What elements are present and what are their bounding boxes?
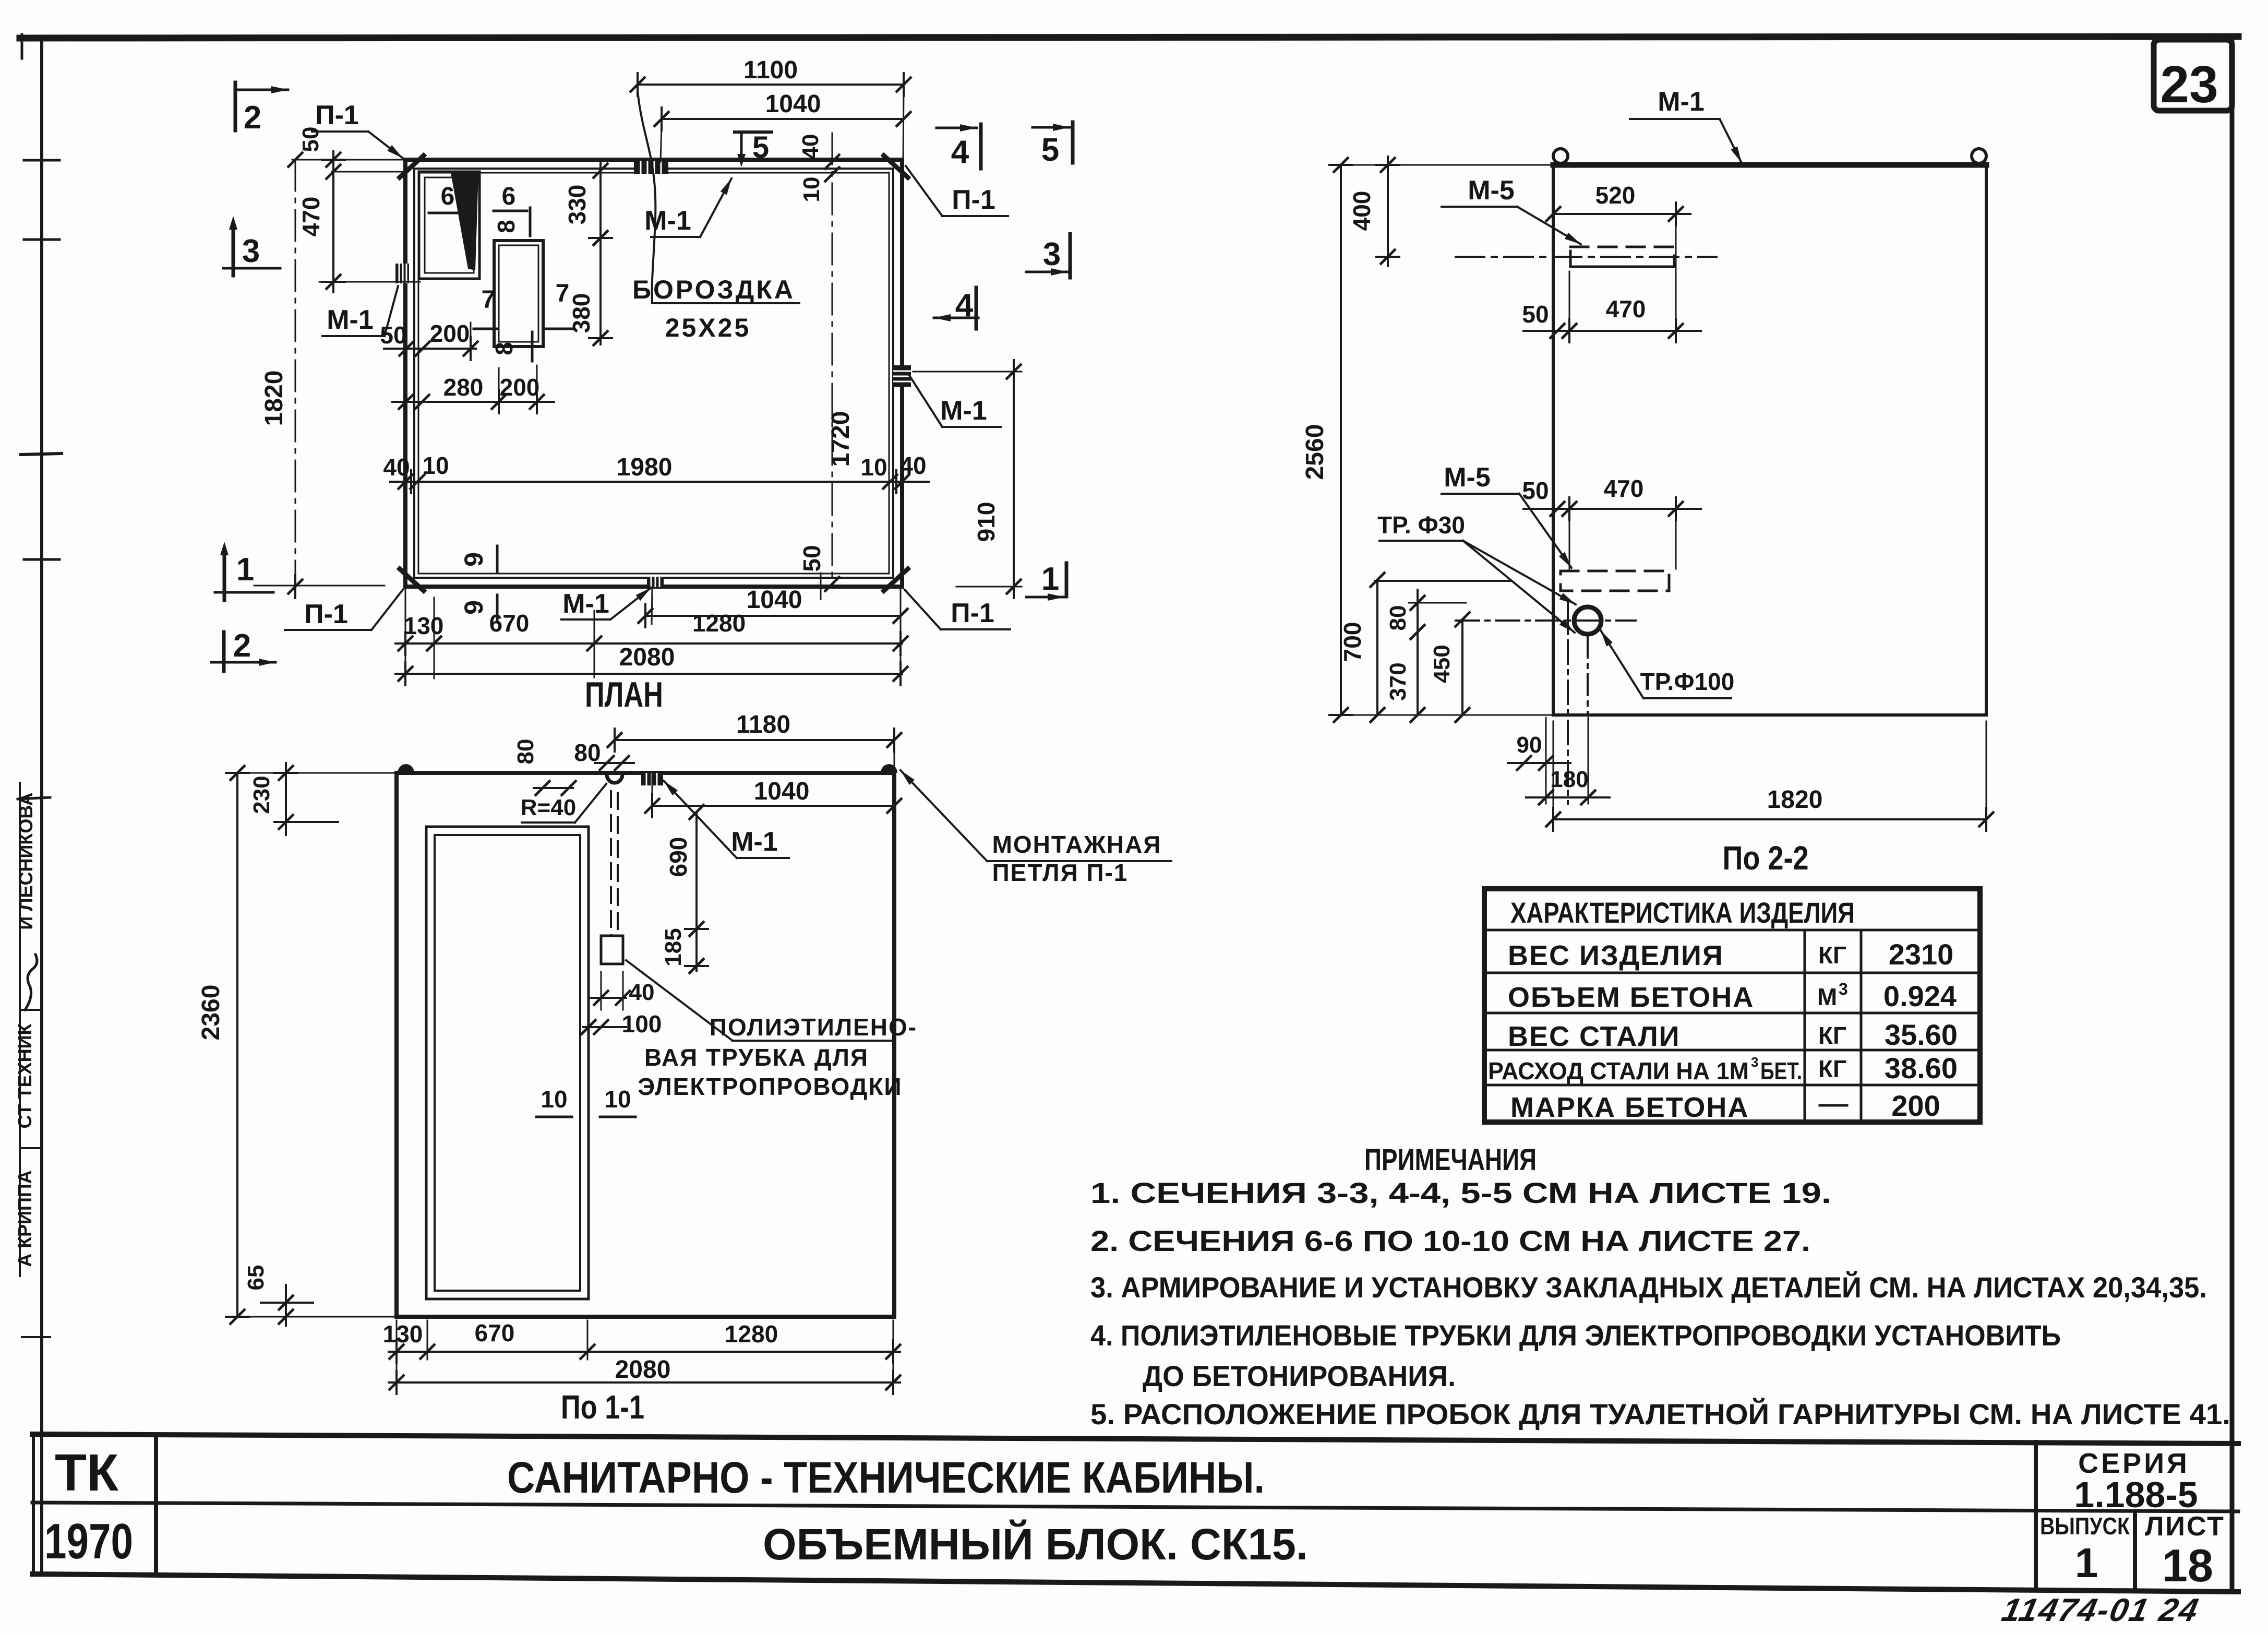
svg-text:2080: 2080 xyxy=(619,643,675,671)
svg-text:БЕТ.: БЕТ. xyxy=(1760,1057,1802,1084)
svg-text:П-1: П-1 xyxy=(315,100,359,130)
svg-text:1280: 1280 xyxy=(692,610,746,637)
svg-text:1040: 1040 xyxy=(747,586,802,614)
svg-text:1820: 1820 xyxy=(1767,786,1823,814)
svg-text:1280: 1280 xyxy=(725,1320,778,1348)
svg-text:10: 10 xyxy=(860,454,887,481)
svg-text:700: 700 xyxy=(1339,622,1366,662)
svg-text:ПОЛИЭТИЛЕНО-: ПОЛИЭТИЛЕНО- xyxy=(710,1014,917,1041)
svg-text:230: 230 xyxy=(249,776,274,814)
svg-text:38.60: 38.60 xyxy=(1885,1052,1958,1084)
svg-text:2: 2 xyxy=(244,100,261,136)
svg-text:380: 380 xyxy=(568,293,595,333)
svg-text:3: 3 xyxy=(242,233,260,269)
svg-text:3: 3 xyxy=(1839,980,1848,998)
svg-text:370: 370 xyxy=(1385,662,1411,700)
svg-text:910: 910 xyxy=(973,502,1000,542)
svg-text:2. СЕЧЕНИЯ 6-6 ПО 10-10 СМ: 2. СЕЧЕНИЯ 6-6 ПО 10-10 СМ НА ЛИСТЕ 27. xyxy=(1090,1224,1810,1257)
svg-text:ВЕС ИЗДЕЛИЯ: ВЕС ИЗДЕЛИЯ xyxy=(1508,940,1724,971)
svg-text:2: 2 xyxy=(233,628,251,664)
svg-text:200: 200 xyxy=(500,374,540,401)
svg-text:П-1: П-1 xyxy=(951,598,994,628)
svg-text:4: 4 xyxy=(951,134,969,170)
svg-text:8: 8 xyxy=(490,342,518,355)
svg-text:7: 7 xyxy=(482,286,496,314)
svg-text:5: 5 xyxy=(752,130,769,164)
svg-text:3: 3 xyxy=(1043,236,1061,272)
svg-text:М-5: М-5 xyxy=(1468,175,1515,206)
svg-text:1820: 1820 xyxy=(260,371,288,426)
svg-text:ТК: ТК xyxy=(55,1444,119,1502)
svg-text:ПЛАН: ПЛАН xyxy=(585,675,663,714)
svg-text:40: 40 xyxy=(629,980,655,1005)
svg-text:5. РАСПОЛОЖЕНИЕ ПРОБОК ДЛЯ: 5. РАСПОЛОЖЕНИЕ ПРОБОК ДЛЯ ТУАЛЕТНОЙ ГАР… xyxy=(1090,1398,2230,1431)
svg-text:50: 50 xyxy=(1522,477,1549,504)
svg-text:3. АРМИРОВАНИЕ И УСТАНОВКУ: 3. АРМИРОВАНИЕ И УСТАНОВКУ ЗАКЛАДНЫХ ДЕТ… xyxy=(1090,1271,2207,1304)
svg-text:40: 40 xyxy=(798,134,823,160)
svg-text:0.924: 0.924 xyxy=(1883,980,1957,1012)
svg-text:100: 100 xyxy=(622,1010,662,1038)
svg-text:40: 40 xyxy=(899,452,926,479)
svg-text:1980: 1980 xyxy=(617,454,673,481)
svg-text:200: 200 xyxy=(1891,1089,1940,1122)
svg-text:По 1-1: По 1-1 xyxy=(561,1388,644,1426)
svg-text:470: 470 xyxy=(297,197,325,237)
svg-text:По 2-2: По 2-2 xyxy=(1723,839,1809,877)
svg-text:А КРИППА: А КРИППА xyxy=(14,1170,35,1267)
svg-text:ВЕС СТАЛИ: ВЕС СТАЛИ xyxy=(1508,1021,1681,1052)
svg-text:470: 470 xyxy=(1606,295,1646,323)
svg-text:И ЛЕСНИКОВА: И ЛЕСНИКОВА xyxy=(15,792,37,929)
svg-text:ТР.Ф100: ТР.Ф100 xyxy=(1640,668,1735,695)
svg-text:1180: 1180 xyxy=(736,711,790,738)
svg-text:185: 185 xyxy=(661,928,686,966)
svg-text:М-1: М-1 xyxy=(562,589,609,619)
svg-text:18: 18 xyxy=(2162,1540,2213,1591)
svg-text:180: 180 xyxy=(1550,767,1588,792)
svg-text:65: 65 xyxy=(243,1265,269,1291)
svg-text:80: 80 xyxy=(1385,605,1411,631)
svg-text:50: 50 xyxy=(798,545,825,571)
svg-text:1040: 1040 xyxy=(754,778,810,805)
svg-text:ТР. Ф30: ТР. Ф30 xyxy=(1377,511,1465,539)
svg-text:СТ ТЕХНИК: СТ ТЕХНИК xyxy=(14,1023,35,1128)
svg-text:690: 690 xyxy=(665,837,692,877)
svg-text:130: 130 xyxy=(404,612,444,639)
svg-text:М-1: М-1 xyxy=(327,305,374,335)
svg-text:2560: 2560 xyxy=(1301,424,1329,480)
svg-text:2360: 2360 xyxy=(197,985,225,1041)
svg-text:1100: 1100 xyxy=(743,56,798,84)
svg-text:25X25: 25X25 xyxy=(665,313,751,342)
svg-text:ОБЪЕМНЫЙ БЛОК. СК15.: ОБЪЕМНЫЙ БЛОК. СК15. xyxy=(763,1520,1308,1569)
svg-text:ХАРАКТЕРИСТИКА ИЗДЕЛИЯ: ХАРАКТЕРИСТИКА ИЗДЕЛИЯ xyxy=(1510,896,1855,929)
svg-text:М-1: М-1 xyxy=(940,396,987,426)
svg-text:1: 1 xyxy=(236,552,254,588)
svg-text:8: 8 xyxy=(493,220,520,233)
svg-text:ОБЪЕМ БЕТОНА: ОБЪЕМ БЕТОНА xyxy=(1508,982,1754,1013)
svg-text:П-1: П-1 xyxy=(304,599,348,629)
svg-text:ВЫПУСК: ВЫПУСК xyxy=(2040,1512,2130,1540)
svg-text:М-1: М-1 xyxy=(731,827,778,857)
svg-text:ЛИСТ: ЛИСТ xyxy=(2145,1511,2225,1542)
svg-text:П-1: П-1 xyxy=(952,185,995,215)
svg-text:23: 23 xyxy=(2160,55,2218,114)
svg-text:М-5: М-5 xyxy=(1444,462,1491,493)
svg-text:1040: 1040 xyxy=(765,90,821,118)
svg-text:КГ: КГ xyxy=(1818,1055,1846,1082)
svg-text:2080: 2080 xyxy=(615,1356,671,1384)
svg-text:6: 6 xyxy=(441,183,455,210)
svg-text:КГ: КГ xyxy=(1818,1022,1846,1049)
svg-text:М-1: М-1 xyxy=(1658,87,1705,117)
svg-text:35.60: 35.60 xyxy=(1885,1018,1958,1051)
svg-text:9: 9 xyxy=(459,552,488,567)
svg-text:6: 6 xyxy=(502,183,516,210)
svg-text:МАРКА БЕТОНА: МАРКА БЕТОНА xyxy=(1510,1092,1749,1123)
svg-text:КГ: КГ xyxy=(1818,941,1846,969)
svg-text:5: 5 xyxy=(1041,132,1059,168)
svg-text:1: 1 xyxy=(2075,1540,2098,1586)
svg-text:670: 670 xyxy=(489,610,530,637)
svg-text:М: М xyxy=(1817,983,1837,1010)
svg-text:9: 9 xyxy=(459,600,488,615)
svg-text:40: 40 xyxy=(383,454,410,481)
svg-text:80: 80 xyxy=(513,739,538,765)
svg-text:4. ПОЛИЭТИЛЕНОВЫЕ ТРУБКИ ДЛЯ: 4. ПОЛИЭТИЛЕНОВЫЕ ТРУБКИ ДЛЯ ЭЛЕКТРОПРОВ… xyxy=(1090,1319,2061,1352)
svg-text:РАСХОД СТАЛИ НА 1М: РАСХОД СТАЛИ НА 1М xyxy=(1488,1057,1749,1084)
svg-text:ПЕТЛЯ П-1: ПЕТЛЯ П-1 xyxy=(992,859,1129,886)
svg-text:3: 3 xyxy=(1751,1054,1758,1070)
svg-text:10: 10 xyxy=(422,452,449,479)
svg-text:130: 130 xyxy=(383,1320,423,1348)
svg-text:ДО БЕТОНИРОВАНИЯ.: ДО БЕТОНИРОВАНИЯ. xyxy=(1143,1360,1456,1392)
svg-text:R=40: R=40 xyxy=(521,795,576,820)
svg-text:ПРИМЕЧАНИЯ: ПРИМЕЧАНИЯ xyxy=(1364,1143,1537,1177)
svg-text:11474-01 24: 11474-01 24 xyxy=(1999,1592,2203,1628)
svg-text:БОРОЗДКА: БОРОЗДКА xyxy=(632,275,795,304)
svg-text:670: 670 xyxy=(475,1319,515,1346)
svg-text:400: 400 xyxy=(1348,191,1375,231)
svg-text:1.188-5: 1.188-5 xyxy=(2074,1474,2198,1515)
svg-text:ВАЯ ТРУБКА ДЛЯ: ВАЯ ТРУБКА ДЛЯ xyxy=(644,1044,869,1071)
svg-text:330: 330 xyxy=(563,185,591,225)
svg-text:1: 1 xyxy=(1041,561,1059,597)
svg-text:450: 450 xyxy=(1429,645,1455,683)
svg-text:ЭЛЕКТРОПРОВОДКИ: ЭЛЕКТРОПРОВОДКИ xyxy=(638,1073,902,1100)
svg-text:90: 90 xyxy=(1517,732,1542,758)
svg-text:М-1: М-1 xyxy=(644,206,691,236)
svg-text:200: 200 xyxy=(430,320,470,347)
svg-text:10: 10 xyxy=(541,1086,567,1113)
svg-text:10: 10 xyxy=(799,177,824,202)
svg-text:10: 10 xyxy=(604,1086,631,1113)
svg-text:1. СЕЧЕНИЯ 3-3, 4-4, 5-5 С: 1. СЕЧЕНИЯ 3-3, 4-4, 5-5 СМ НА ЛИСТЕ 19. xyxy=(1090,1176,1831,1209)
svg-text:470: 470 xyxy=(1604,475,1644,502)
svg-text:50: 50 xyxy=(1522,301,1549,328)
svg-text:1720: 1720 xyxy=(827,411,855,467)
svg-text:1970: 1970 xyxy=(44,1513,133,1569)
svg-text:2310: 2310 xyxy=(1889,938,1954,971)
svg-text:МОНТАЖНАЯ: МОНТАЖНАЯ xyxy=(992,831,1162,858)
svg-text:520: 520 xyxy=(1595,182,1636,209)
svg-text:САНИТАРНО - ТЕХНИЧЕСКИЕ КАБ: САНИТАРНО - ТЕХНИЧЕСКИЕ КАБИНЫ. xyxy=(507,1453,1265,1502)
svg-text:280: 280 xyxy=(443,374,484,401)
